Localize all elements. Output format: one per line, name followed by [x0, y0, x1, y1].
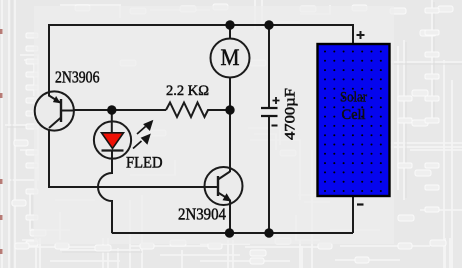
junction node: motor top rail [225, 20, 234, 29]
wire 2N3906 base to resistor [74, 109, 166, 111]
junction node: resistor/motor/collector [225, 105, 234, 114]
LED light arrow 1 [137, 121, 152, 134]
wire bottom rail [112, 232, 353, 234]
svg-text:Cell: Cell [342, 107, 366, 123]
LED triangle (red) [102, 133, 124, 149]
svg-text:2.2 KΩ: 2.2 KΩ [166, 83, 209, 99]
LED light arrow 2 [133, 135, 150, 149]
wire solar cell minus drop [352, 196, 354, 233]
capacitor C1 plates [261, 108, 278, 116]
transistor Q2 2N3904 [204, 167, 243, 205]
svg-text:FLED: FLED [126, 155, 163, 172]
transistor Q1 emitter arrowhead (PNP points to bar) [53, 96, 61, 103]
resistor R1 2.2 KΩ zigzag [166, 103, 230, 118]
junction node: emitter bottom rail [225, 228, 234, 237]
wire 2N3906 collector down left side to 2N3904 base [49, 128, 218, 187]
wire capacitor bottom branch [268, 117, 270, 234]
junction node: capacitor bottom rail [264, 228, 273, 237]
capacitor plus sign [273, 97, 280, 104]
svg-text:Solar: Solar [340, 90, 367, 106]
solar cell PV1 body [318, 44, 390, 196]
svg-text:2N3906: 2N3906 [55, 68, 100, 87]
capacitor minus sign [272, 125, 278, 127]
svg-text:M: M [221, 45, 240, 70]
svg-text:2N3904: 2N3904 [178, 205, 226, 224]
LED FLED [94, 121, 131, 161]
junction node: base/FLED [107, 105, 116, 114]
transistor Q2 emitter arrowhead (NPN points out) [223, 193, 232, 201]
wire motor bottom to junction [229, 78, 231, 111]
motor M1 [211, 39, 250, 78]
wire 2N3904 emitter to bottom rail [229, 204, 231, 233]
solar cell plus sign [357, 31, 365, 39]
solar cell dot grid [324, 51, 382, 193]
transistor Q1 2N3906 [35, 91, 74, 131]
junction node: capacitor top rail [264, 20, 273, 29]
wire capacitor top branch [268, 25, 270, 108]
wire top rail from left corner to solar cell drop [49, 25, 353, 96]
svg-text:4700µF: 4700µF [283, 88, 299, 140]
wire FLED anode lead [111, 110, 113, 133]
wire motor top branch [229, 25, 231, 39]
wire FLED cathode lead with hop over base wire [98, 151, 112, 234]
wire junction to 2N3904 collector [229, 110, 231, 169]
solar cell minus sign [357, 203, 364, 205]
